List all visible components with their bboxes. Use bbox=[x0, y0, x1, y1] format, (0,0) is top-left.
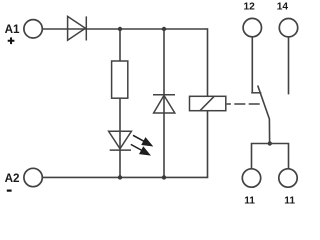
terminal 11 left bbox=[242, 169, 260, 187]
svg-text:A1: A1 bbox=[5, 23, 20, 36]
junction bottom LED branch bbox=[118, 175, 122, 179]
contact blade bbox=[258, 86, 270, 144]
junction top resistor branch bbox=[118, 27, 122, 31]
terminal 14 bbox=[279, 19, 297, 37]
terminal A2 bbox=[24, 168, 42, 186]
wire zener branch bbox=[163, 29, 165, 177]
wire common tee to 11 terminals bbox=[252, 144, 289, 170]
LED arrow 2 bbox=[131, 144, 149, 154]
wire terminal 14 drop bbox=[288, 37, 290, 95]
svg-text:11: 11 bbox=[284, 195, 295, 206]
junction bottom zener branch bbox=[162, 175, 166, 179]
wire resistor branch upper bbox=[119, 29, 121, 62]
dashed actuation link bbox=[227, 103, 262, 105]
wire terminal 12 drop bbox=[251, 37, 253, 93]
svg-text:12: 12 bbox=[244, 2, 256, 13]
diode D1 bbox=[68, 16, 87, 40]
junction top zener branch bbox=[162, 27, 166, 31]
svg-text:14: 14 bbox=[277, 2, 289, 13]
relay coil K1 bbox=[190, 96, 226, 110]
terminal 12 bbox=[243, 18, 261, 36]
LED D2 bbox=[109, 131, 132, 150]
label - bbox=[7, 190, 12, 192]
terminal 11 right bbox=[279, 169, 297, 187]
LED arrow 1 bbox=[133, 135, 152, 145]
terminal A1 bbox=[24, 20, 42, 38]
label + bbox=[8, 37, 15, 44]
resistor R1 bbox=[112, 61, 128, 98]
wire coil bottom down bbox=[207, 111, 209, 178]
wire resistor to LED bbox=[119, 98, 121, 177]
junction contact common bbox=[268, 141, 272, 145]
svg-text:A2: A2 bbox=[5, 172, 20, 185]
wire top A1 to corner bbox=[42, 28, 207, 30]
wire bottom A2 bbox=[42, 176, 208, 178]
svg-text:11: 11 bbox=[244, 195, 255, 206]
zener diode D3 bbox=[153, 95, 175, 113]
wire corner down to coil bbox=[207, 28, 209, 96]
contact NC seat 12 bbox=[251, 92, 261, 94]
